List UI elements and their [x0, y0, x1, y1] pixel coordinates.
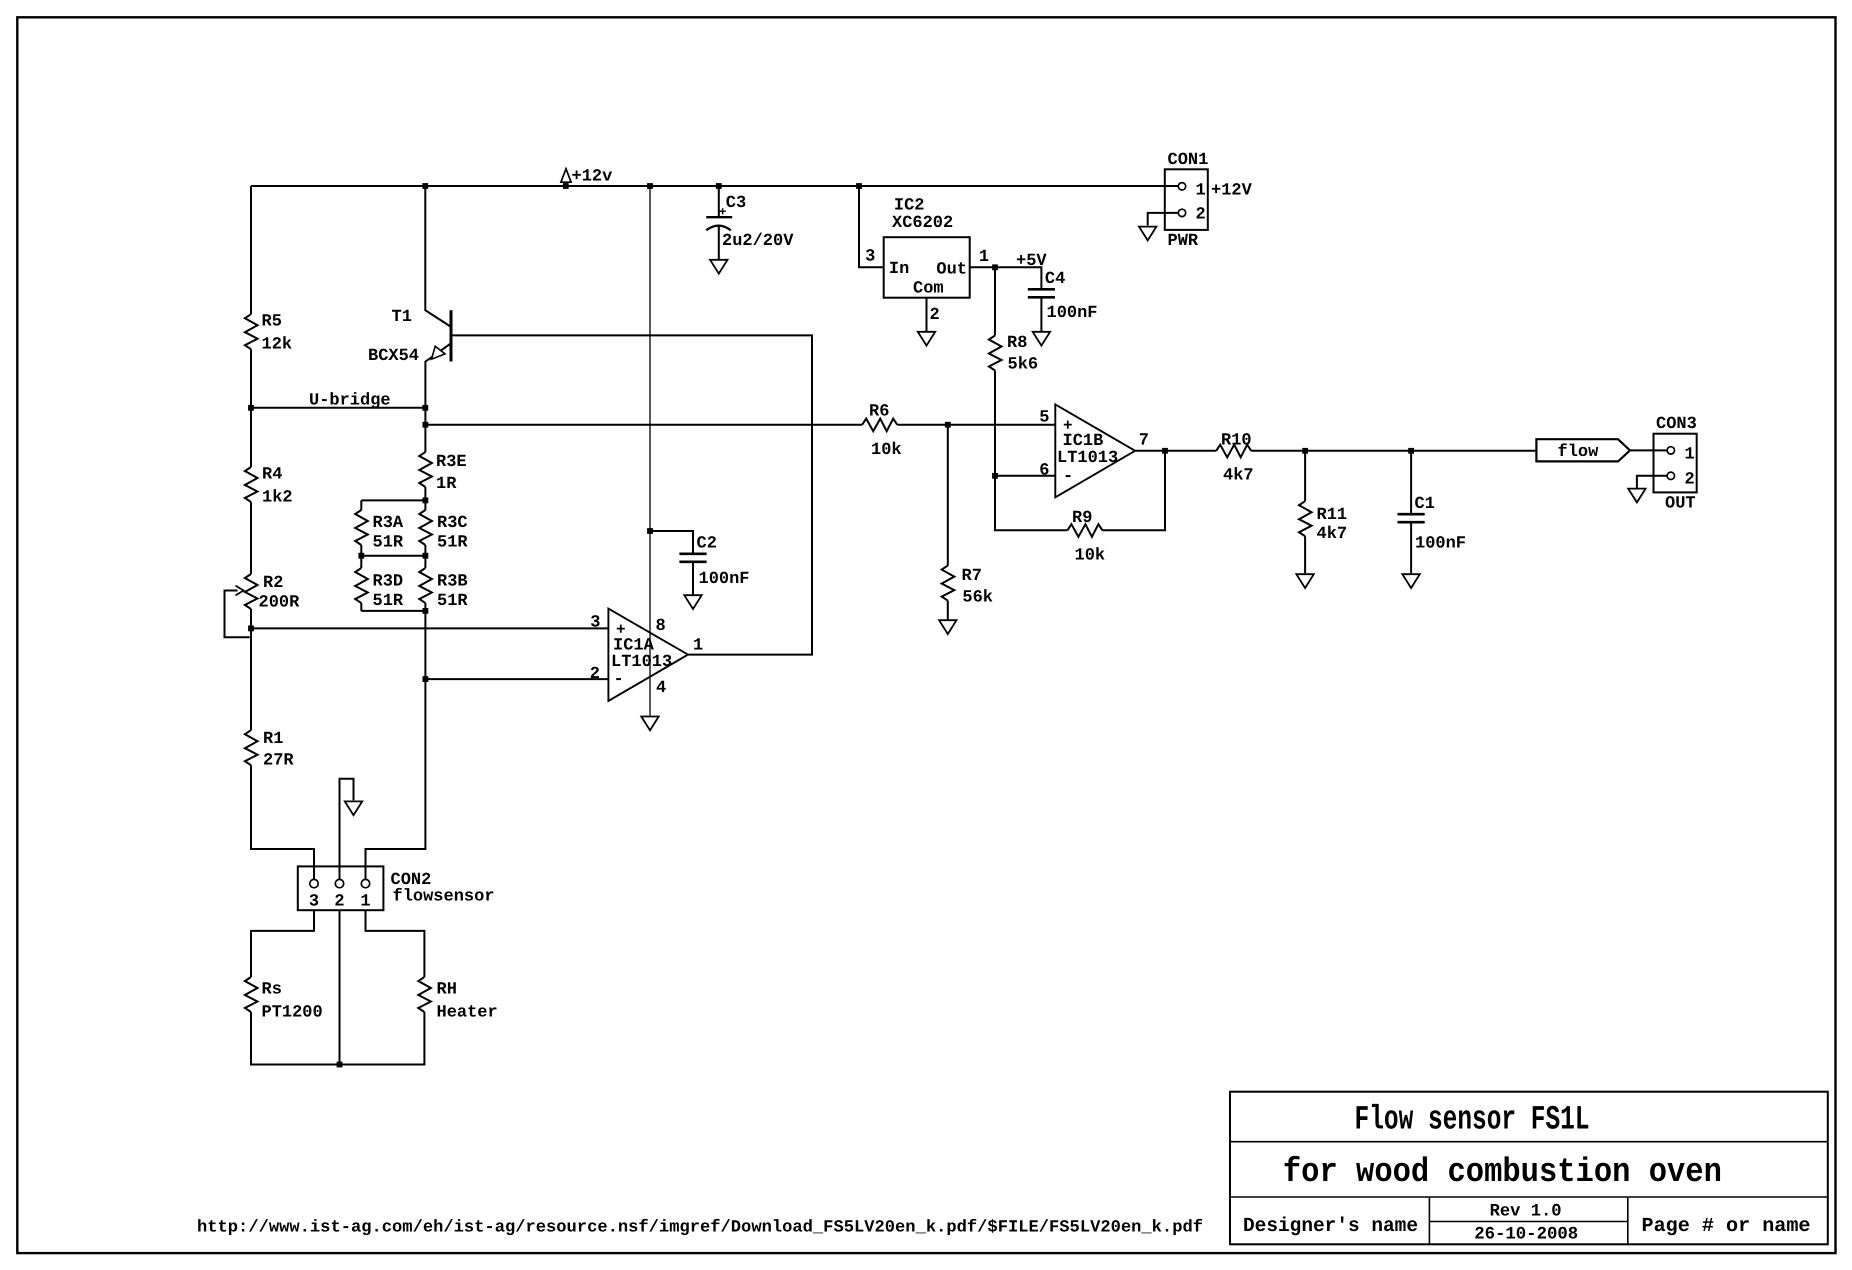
wire wire R7 to ground [947, 601, 949, 620]
transistor T1 (BCX54 NPN) [368, 308, 451, 366]
junction R3 middle bridge right [423, 553, 429, 559]
svg-text:1R: 1R [436, 475, 457, 494]
svg-text:IC2: IC2 [894, 197, 925, 216]
svg-text:51R: 51R [437, 592, 468, 611]
wire wire to R7 [947, 425, 949, 566]
junction rail / IC2 In drop [856, 183, 862, 189]
svg-text:R2: R2 [263, 574, 283, 593]
junction +12v symbol tap [563, 183, 569, 189]
wire wire R3D/R3B bottoms [361, 603, 425, 611]
svg-text:1: 1 [693, 637, 703, 656]
svg-text:4k7: 4k7 [1223, 467, 1254, 486]
svg-text:C3: C3 [726, 194, 746, 213]
svg-text:C2: C2 [697, 535, 717, 554]
op-amp IC1B (LT1013) [1039, 404, 1149, 497]
wire wire to C1 [1410, 451, 1412, 513]
voltage regulator IC2 (XC6202) [865, 197, 989, 326]
junction rail / IC1A supply drop [647, 183, 653, 189]
resistor R3D [355, 568, 404, 611]
svg-text:T1: T1 [392, 308, 412, 327]
svg-text:5: 5 [1039, 408, 1049, 427]
junction R3 bottom bridge [423, 608, 429, 614]
svg-text:LT1013: LT1013 [611, 653, 672, 672]
svg-text:1k2: 1k2 [262, 489, 293, 508]
svg-text:+12v: +12v [572, 168, 613, 187]
svg-text:1: 1 [1196, 181, 1206, 200]
svg-text:56k: 56k [962, 589, 993, 608]
wire wire +12V rail to IC2 pin 3 (In) [859, 186, 884, 267]
svg-text:C1: C1 [1415, 495, 1435, 514]
svg-text:26-10-2008: 26-10-2008 [1474, 1225, 1578, 1245]
wire wire R3A/R3C bottoms [361, 545, 425, 556]
wire wire to IC1B pin 6 [995, 475, 1055, 477]
wire wire flow flag to CON3 pin 1 [1630, 449, 1667, 451]
svg-text:1: 1 [1685, 446, 1695, 465]
ground below C4 [1033, 332, 1050, 346]
svg-text:LT1013: LT1013 [1057, 449, 1118, 468]
svg-text:OUT: OUT [1665, 495, 1696, 514]
+12v power symbol [561, 168, 612, 187]
wire wire R3 node down to CON2 pin 1 [366, 611, 426, 880]
svg-text:R5: R5 [262, 313, 282, 332]
junction Rs-RH bottom link / CON2 pin 2 [337, 1062, 343, 1068]
junction U-bridge left [248, 405, 254, 411]
svg-text:27R: 27R [263, 752, 294, 771]
wire wire IC2 Com pin 2 to ground [926, 298, 928, 332]
wire wire R11 to ground [1304, 536, 1306, 573]
svg-text:-: - [614, 671, 624, 690]
wire wire R4 to R2 [250, 502, 252, 574]
svg-text:R6: R6 [869, 403, 889, 422]
svg-text:2: 2 [1685, 471, 1695, 490]
junction bridge output tee [423, 422, 429, 428]
svg-text:51R: 51R [373, 534, 404, 553]
wire wire R1 to CON2 pin 3 [251, 765, 314, 879]
wire wire R2 wiper return [225, 591, 250, 638]
svg-text:R8: R8 [1007, 334, 1027, 353]
wire wire CON2 pin 2 to ground [340, 779, 354, 880]
junction IC1B output / R9 feedback [1162, 448, 1168, 454]
svg-text:3: 3 [590, 614, 600, 633]
svg-text:Com: Com [913, 280, 944, 299]
ground below C1 [1402, 574, 1419, 588]
junction +5V / R8 [992, 264, 998, 270]
resistor R7 [942, 566, 993, 608]
resistor R6 [862, 403, 901, 460]
wire wire CON2 pin 2 down to bottom link [339, 910, 341, 1064]
svg-text:10k: 10k [871, 441, 902, 460]
junction R6 / R7 tee [945, 422, 951, 428]
junction R3 middle bridge left [358, 553, 364, 559]
svg-text:Heater: Heater [437, 1004, 498, 1023]
capacitor C2 [679, 535, 749, 590]
svg-text:51R: 51R [373, 592, 404, 611]
junction C2 branch [647, 528, 653, 534]
resistor R3A [355, 510, 404, 553]
wire wire R10 to flow flag [1251, 450, 1536, 452]
svg-text:R3B: R3B [437, 573, 468, 592]
svg-text:Designer's name: Designer's name [1243, 1215, 1418, 1238]
wire wire R3E to R3 bridge [424, 487, 426, 500]
svg-text:R4: R4 [262, 466, 282, 485]
svg-text:CON1: CON1 [1168, 151, 1209, 170]
title block [1230, 1092, 1828, 1245]
svg-text:C4: C4 [1045, 270, 1065, 289]
junction R8 / IC1B pin 6 / R9 [992, 473, 998, 479]
svg-text:BCX54: BCX54 [368, 347, 419, 366]
svg-text:10k: 10k [1075, 547, 1106, 566]
svg-text:R1: R1 [263, 730, 283, 749]
svg-text:RH: RH [437, 981, 457, 1000]
wire wire CON1 pin 2 to ground [1148, 213, 1179, 226]
wire net +12V left rail to R5 [250, 186, 252, 314]
wire wire to IC1A pin 2 [425, 678, 608, 680]
svg-text:XC6202: XC6202 [892, 214, 953, 233]
svg-text:12k: 12k [262, 336, 293, 355]
ground at CON3 pin 2 [1628, 489, 1645, 503]
svg-text:2: 2 [1196, 205, 1206, 224]
resistor R3E [419, 452, 466, 494]
resistor R3B [419, 568, 468, 611]
svg-text:+5V: +5V [1016, 252, 1047, 271]
wire wire C1 to ground [1410, 522, 1412, 574]
svg-text:8: 8 [656, 617, 666, 636]
wire wire R2 to R1 (U-sense node) [250, 609, 252, 730]
wire wire T1 emitter down [425, 344, 450, 452]
svg-text:Rs: Rs [262, 981, 282, 1000]
svg-text:U-bridge: U-bridge [309, 392, 391, 411]
ground below R7 [939, 620, 956, 634]
svg-text:2: 2 [334, 893, 344, 912]
wire wire +5V to R8 [994, 267, 996, 335]
connector CON1 (PWR) [1165, 151, 1253, 251]
svg-text:1: 1 [360, 893, 370, 912]
junction output / C1 [1408, 448, 1414, 454]
svg-text:200R: 200R [259, 594, 301, 613]
svg-text:R3D: R3D [373, 573, 404, 592]
svg-text:+12V: +12V [1211, 181, 1253, 200]
svg-text:http://www.ist-ag.com/eh/ist-a: http://www.ist-ag.com/eh/ist-ag/resource… [197, 1219, 1203, 1238]
svg-text:R9: R9 [1072, 509, 1092, 528]
resistor R10 [1216, 431, 1253, 485]
net flag "flow" [1536, 439, 1630, 462]
svg-text:Out: Out [936, 261, 967, 280]
junction T1 collector / +12V rail [422, 183, 428, 189]
svg-text:R3C: R3C [437, 514, 468, 533]
wire wire R3 middle bridge [361, 555, 425, 557]
svg-text:R3A: R3A [373, 514, 404, 533]
svg-text:-: - [1063, 468, 1073, 487]
resistor R8 [989, 334, 1038, 374]
junction R2 node / pin3 wire [248, 626, 254, 632]
wire wire C3 to ground [718, 226, 720, 259]
junction emitter chain / IC1A pin 2 [423, 676, 429, 682]
svg-text:R3E: R3E [436, 453, 467, 472]
svg-text:3: 3 [309, 893, 319, 912]
svg-text:4k7: 4k7 [1317, 525, 1348, 544]
resistor Rs [245, 977, 323, 1023]
wire wire C2 branch [650, 531, 693, 553]
svg-text:R11: R11 [1317, 506, 1348, 525]
wire wire to R11 [1304, 451, 1306, 501]
wire wire CON2 pin 1 to RH [366, 910, 425, 977]
wire wire R8 to IC1B pin 6 node [994, 371, 996, 476]
capacitor C3 (polarized 2u2/20V) [706, 194, 794, 251]
wire wire CON2 pin 3 to Rs [251, 910, 314, 977]
svg-text:2: 2 [590, 665, 600, 684]
ground at IC2 Com [918, 332, 935, 346]
connector CON2 (flowsensor) [298, 866, 495, 911]
wire wire T1 base to IC1A output pin 1 [451, 335, 812, 654]
svg-text:Page # or name: Page # or name [1642, 1215, 1811, 1238]
resistor R4 [245, 466, 293, 508]
svg-text:flowsensor: flowsensor [393, 888, 495, 907]
junction U-bridge right [422, 405, 428, 411]
connector CON3 (OUT) [1654, 415, 1697, 514]
svg-text:2u2/20V: 2u2/20V [722, 232, 794, 251]
svg-text:100nF: 100nF [1047, 304, 1098, 323]
junction R3E / R3A-R3C top [423, 498, 429, 504]
svg-text:100nF: 100nF [1415, 535, 1466, 554]
wire wire R9 to output node [1102, 451, 1165, 531]
wire net U-bridge wire [251, 407, 425, 409]
op-amp IC1A (LT1013) [590, 609, 703, 701]
wire net +5V: IC2 Out to C4 [970, 267, 1042, 288]
svg-text:R10: R10 [1221, 431, 1252, 450]
ground at CON2 pin 2 [345, 801, 362, 815]
wire wire pin6 node to R9 [995, 476, 1067, 531]
svg-text:7: 7 [1139, 431, 1149, 450]
svg-text:PWR: PWR [1168, 232, 1199, 251]
wire wire R2 node to IC1A pin 3 [251, 627, 608, 629]
svg-text:Flow sensor FS1L: Flow sensor FS1L [1355, 1102, 1590, 1140]
wire wire R3A/R3C tops [361, 500, 425, 510]
svg-text:3: 3 [865, 248, 875, 267]
svg-text:6: 6 [1039, 462, 1049, 481]
wire wire R3 bottom bridge [361, 610, 425, 612]
svg-text:R7: R7 [962, 567, 982, 586]
svg-text:2: 2 [930, 306, 940, 325]
resistor RH [418, 977, 497, 1023]
resistor R3C [419, 510, 468, 553]
R2 wiper arrow [236, 586, 244, 596]
svg-text:for wood combustion oven: for wood combustion oven [1283, 1154, 1722, 1192]
wire wire C2 to ground [692, 561, 694, 594]
wire wire R5 to R4 [250, 349, 252, 467]
capacitor C1 [1398, 495, 1467, 554]
svg-text:flow: flow [1558, 443, 1600, 462]
svg-text:51R: 51R [437, 534, 468, 553]
svg-text:4: 4 [656, 679, 666, 698]
wire wire T1 collector to +12V rail [425, 186, 451, 327]
wire wire +12V rail to C3 [718, 186, 720, 216]
resistor R9 [1067, 509, 1105, 566]
wire wire CON3 pin 2 to ground [1637, 476, 1667, 488]
svg-text:100nF: 100nF [699, 570, 750, 589]
wire wire Rs/RH bottom link [251, 1012, 424, 1065]
junction rail / C3 [716, 183, 722, 189]
wire wire +12V rail to IC1A pin8/pin4 ground [649, 186, 651, 716]
capacitor C4 [1028, 270, 1098, 323]
resistor R2 [245, 574, 300, 613]
wire wire R3 top bridge [361, 499, 425, 501]
resistor R11 [1299, 501, 1347, 544]
svg-text:In: In [889, 260, 909, 279]
svg-text:CON3: CON3 [1656, 415, 1697, 434]
ground below C3 [710, 260, 727, 274]
wire wire IC1B output pin 7 to R10 [1135, 450, 1216, 452]
wire wire R6 to IC1B pin 5 [897, 424, 1055, 426]
ground at IC1A pin 4 [641, 717, 658, 731]
svg-text:5k6: 5k6 [1008, 355, 1039, 374]
wire wire R3D/R3B tops [361, 556, 425, 568]
wire wire U-bridge output to R6 [425, 424, 862, 426]
resistor R1 [245, 730, 295, 771]
svg-text:Rev 1.0: Rev 1.0 [1490, 1202, 1562, 1222]
wire net +12V top rail [251, 185, 1178, 187]
svg-text:PT1200: PT1200 [262, 1004, 323, 1023]
svg-text:1: 1 [979, 248, 989, 267]
resistor R5 [245, 313, 292, 355]
wire wire C4 to ground [1040, 297, 1042, 331]
junction output / R11 [1302, 448, 1308, 454]
ground below C2 [684, 595, 701, 609]
ground below R11 [1296, 574, 1313, 588]
ground at CON1 pin 2 [1139, 227, 1156, 241]
